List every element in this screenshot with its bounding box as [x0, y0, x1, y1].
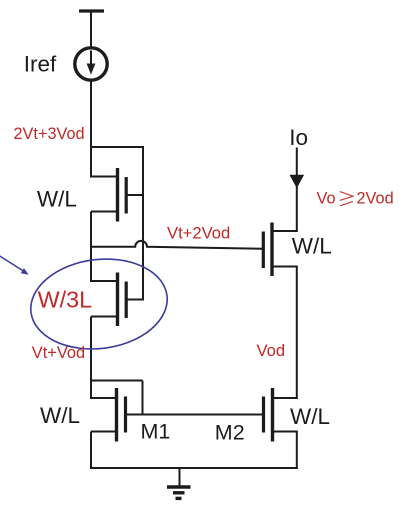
transistor T3 channel bar — [270, 223, 273, 277]
transistor T3 W/L (right cascode) drain line — [272, 230, 298, 232]
transistor T1 gate bar — [125, 177, 128, 214]
label Vo>=2Vod — [317, 189, 394, 207]
wire M1 source to ground rail — [90, 432, 92, 470]
current source arrow — [87, 51, 96, 75]
current source Iref circle — [75, 48, 107, 80]
svg-text:Vod: Vod — [257, 341, 286, 360]
transistor T1 W/L drain line — [90, 176, 118, 178]
svg-text:Vt+Vod: Vt+Vod — [32, 344, 85, 362]
transistor M2 channel bar — [271, 388, 274, 442]
svg-text:2Vt+3Vod: 2Vt+3Vod — [14, 125, 85, 143]
wire T1 diode connection top horizontal — [90, 146, 143, 148]
wire T1 source to T2 drain — [90, 212, 92, 283]
annotation arrow pointing to ellipse — [0, 255, 29, 275]
wire current source to T1 drain node — [90, 81, 92, 178]
svg-text:Iref: Iref — [24, 52, 57, 77]
svg-text:W/L: W/L — [37, 186, 77, 211]
annotation ellipse around W/3L — [26, 251, 173, 356]
transistor T2 source line — [91, 316, 118, 318]
transistor M2 drain line — [273, 397, 298, 399]
supply rail top bar — [79, 9, 104, 12]
svg-text:M1: M1 — [141, 420, 171, 444]
wire ground rail bottom — [90, 467, 298, 469]
wire M2 source to ground rail — [296, 432, 298, 470]
wire node Vt+2Vod to cascode gate (with hop bump) — [91, 241, 264, 249]
Io arrowhead — [290, 175, 305, 188]
ground symbol — [167, 468, 191, 498]
transistor T2 channel bar — [116, 273, 119, 327]
transistor T3 gate bar — [262, 232, 265, 269]
svg-text:M2: M2 — [215, 420, 245, 444]
svg-text:W/L: W/L — [292, 234, 332, 259]
transistor T2 gate bar — [125, 282, 128, 319]
transistor T1 channel bar — [116, 168, 119, 222]
wire M1 diode connection horizontal — [91, 380, 143, 382]
svg-text:W/L: W/L — [40, 403, 80, 428]
wire gate bus vertical x=143 (T1/T2 gates to top node) — [142, 146, 144, 301]
transistor M1 drain line — [90, 397, 117, 399]
wire M1 diode connection vertical — [142, 381, 144, 416]
svg-text:Vo: Vo — [317, 189, 336, 207]
transistor M1 channel bar — [115, 388, 118, 442]
wire T3 source to M2 drain (node Vod) — [296, 267, 298, 400]
svg-text:W/3L: W/3L — [38, 286, 93, 312]
svg-text:Io: Io — [289, 125, 308, 150]
transistor M2 gate bar — [262, 397, 265, 433]
transistor T2 gate line — [126, 299, 143, 301]
wire T2 source to M1 drain — [90, 317, 92, 400]
wire top bar to current source — [90, 11, 92, 48]
wire Io arrow into cascode drain — [296, 148, 298, 233]
svg-text:Vt+2Vod: Vt+2Vod — [167, 224, 230, 243]
svg-text:W/L: W/L — [290, 404, 330, 429]
transistor T1 gate line — [126, 194, 143, 196]
transistor T2 W/3L drain line — [90, 280, 118, 282]
transistor T3 source line — [272, 266, 298, 268]
transistor T1 source line — [91, 211, 118, 213]
wire shared gate bus M1-M2 — [126, 414, 264, 416]
transistor M1 source line — [91, 431, 117, 433]
transistor M2 source line — [273, 431, 298, 433]
transistor M1 gate bar — [124, 397, 127, 433]
svg-text:2Vod: 2Vod — [357, 189, 394, 207]
